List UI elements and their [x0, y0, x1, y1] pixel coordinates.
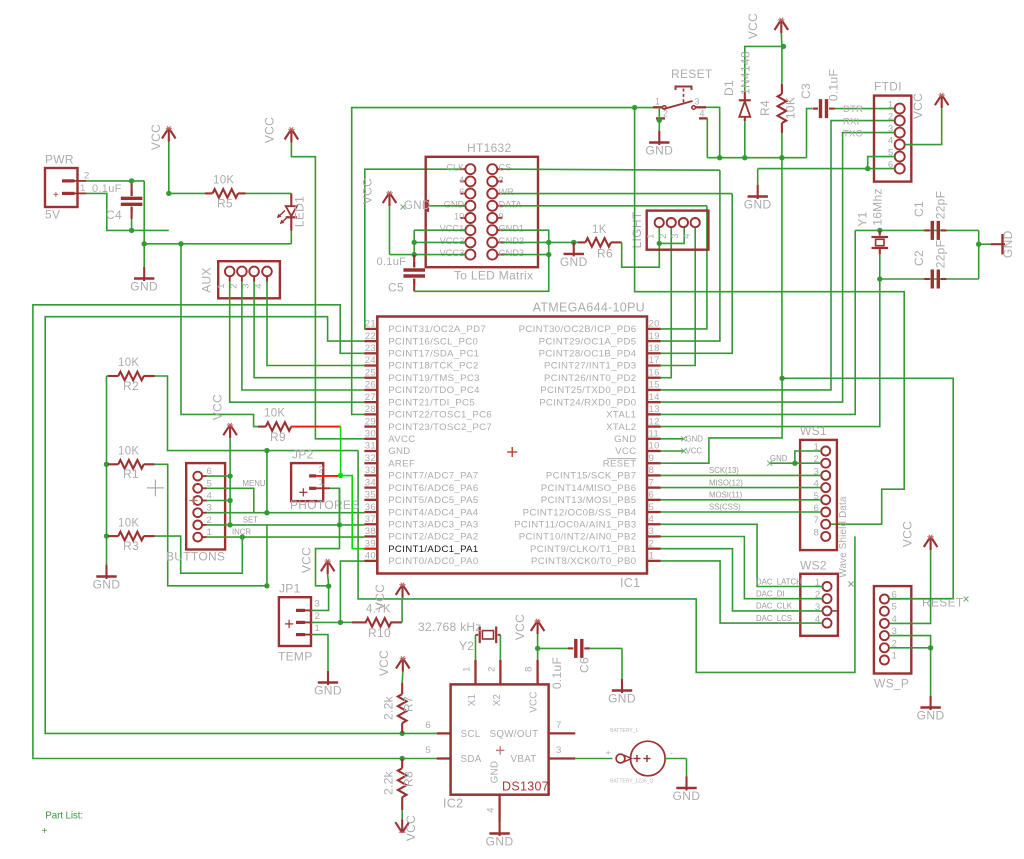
wire AUX3 to IC pin25 [254, 282, 364, 378]
svg-text:DAC_DI: DAC_DI [756, 590, 785, 599]
svg-text:PCINT7/ADC7_PA7: PCINT7/ADC7_PA7 [388, 471, 478, 482]
svg-text:GND: GND [673, 789, 701, 803]
connector JP1 (temp sensor) [279, 597, 311, 646]
ground GND (battery) [685, 777, 687, 791]
wire MISO(12) IC pin7 to WS1 pin4 [661, 487, 821, 489]
pin 22 (PCINT16/SCL_PC0) [364, 340, 377, 342]
pin 11 (GND) [647, 438, 661, 440]
LED LED1 [290, 193, 292, 206]
supply VCC arrow (main rail) [162, 128, 169, 139]
svg-text:VCC: VCC [263, 117, 277, 143]
svg-text:VCC: VCC [377, 650, 391, 676]
svg-text:R9: R9 [270, 430, 286, 444]
svg-text:2: 2 [84, 171, 90, 182]
svg-text:Part List:: Part List: [45, 811, 83, 822]
svg-text:R7: R7 [402, 696, 416, 712]
svg-text:0.1uF: 0.1uF [377, 256, 407, 268]
svg-text:VCC: VCC [901, 521, 915, 547]
wire reset rail to C3 [807, 109, 813, 158]
svg-text:2: 2 [888, 112, 894, 123]
svg-text:36: 36 [365, 502, 376, 513]
pin 2 (PCINT9/CLKO/T1_PB1) [647, 548, 661, 550]
svg-text:6: 6 [649, 490, 655, 501]
net label GND (IC pin11) [661, 438, 684, 440]
supply VCC arrow (IC2) [531, 621, 538, 632]
svg-text:PCINT11/OC0A/AIN1_PB3: PCINT11/OC0A/AIN1_PB3 [514, 519, 636, 530]
svg-text:C3: C3 [799, 83, 813, 99]
ground GND (FTDI) [757, 169, 759, 185]
svg-text:VCC: VCC [746, 13, 760, 39]
svg-text:PCINT22/TOSC1_PC6: PCINT22/TOSC1_PC6 [388, 410, 492, 421]
svg-text:JP1: JP1 [279, 582, 301, 596]
svg-text:18: 18 [649, 343, 660, 354]
svg-text:HT1632: HT1632 [467, 141, 512, 155]
svg-text:1: 1 [462, 666, 473, 672]
ground GND (reset switch) [658, 131, 660, 145]
svg-text:8: 8 [814, 527, 820, 538]
svg-text:C5: C5 [388, 281, 404, 295]
wire IC pin21 to HT1632 CLK [364, 169, 465, 329]
pin 37 (PCINT3/ADC3_PA3) [364, 523, 377, 525]
pin 3 (PCINT10/INT2/AIN0_PB2) [647, 535, 661, 537]
svg-text:R1: R1 [123, 467, 139, 481]
svg-text:GND: GND [770, 454, 788, 463]
svg-text:22pF: 22pF [934, 240, 948, 269]
HT1632 pin row 4/3 [465, 176, 475, 186]
svg-text:VCC: VCC [361, 178, 375, 204]
pin 31 (GND) [364, 450, 377, 452]
pin 32 (AREF) [364, 462, 377, 464]
svg-text:X2: X2 [492, 694, 503, 707]
wire VCC1/2/3 tie [414, 229, 465, 231]
supply VCC arrow (R4/reset) [775, 20, 782, 31]
svg-text:PCINT16/SCL_PC0: PCINT16/SCL_PC0 [388, 336, 478, 347]
HT1632 pin row 10/9 [465, 213, 475, 223]
svg-text:AREF: AREF [388, 458, 415, 469]
resistor R7 2.2k [396, 658, 403, 669]
pin X1 (1) [474, 660, 476, 685]
wire IC pin9 RESET zigzag to R4 node [661, 378, 782, 463]
svg-text:10K: 10K [118, 446, 139, 458]
svg-text:0.1uF: 0.1uF [827, 69, 841, 101]
pin VBAT (3) [549, 757, 576, 759]
wire R3 under-loop to INCR [155, 536, 243, 573]
svg-text:4: 4 [486, 807, 497, 813]
svg-text:GND: GND [608, 692, 636, 706]
svg-text:RXI: RXI [843, 117, 859, 128]
wire SCL net (IC pin22 to IC2 SCL) [45, 317, 402, 734]
svg-text:AUX: AUX [200, 267, 214, 293]
capacitor C1 22pF [924, 229, 930, 231]
svg-text:9: 9 [649, 453, 655, 464]
wire IC pin13 XTAL1 to crystal [661, 230, 855, 414]
svg-text:34: 34 [365, 477, 377, 488]
ground tick GND (HT1632 left) [428, 205, 465, 207]
svg-text:DAC_LCS: DAC_LCS [756, 614, 792, 623]
wire AUX1 to IC pin27 [230, 282, 365, 403]
svg-text:10K: 10K [118, 518, 139, 530]
svg-text:30: 30 [365, 428, 376, 439]
svg-text:1N4148: 1N4148 [739, 51, 753, 95]
svg-text:7: 7 [814, 515, 820, 526]
pin 17 (PCINT27/INT1_PD3) [647, 364, 661, 366]
pin 23 (PCINT17/SDA_PC1) [364, 352, 377, 354]
wire SS(CSS) IC pin5 to WS1 pin6 [661, 511, 821, 513]
svg-text:JP2: JP2 [292, 448, 314, 462]
wire R10 to VCC corner [401, 599, 403, 623]
svg-text:PCINT2/ADC2_PA2: PCINT2/ADC2_PA2 [388, 532, 478, 543]
svg-text:BUTTONS: BUTTONS [166, 550, 225, 564]
ground GND (C6) [621, 679, 623, 693]
wire IC pin15 TXD to FTDI RXI [661, 121, 895, 390]
svg-text:DTR: DTR [843, 104, 863, 115]
svg-text:22pF: 22pF [934, 191, 948, 220]
svg-text:32.768 kHz: 32.768 kHz [418, 620, 482, 634]
svg-text:3: 3 [888, 124, 894, 135]
wire AUX4 to IC pin24 [267, 282, 364, 366]
svg-text:PCINT9/CLKO/T1_PB1: PCINT9/CLKO/T1_PB1 [530, 544, 637, 555]
svg-text:1: 1 [80, 183, 86, 194]
wire MOSI(11) IC pin6 to WS1 pin5 [661, 499, 821, 501]
svg-text:PCINT31/OC2A_PD7: PCINT31/OC2A_PD7 [388, 324, 486, 335]
svg-text:VCC: VCC [513, 614, 527, 640]
svg-text:38: 38 [365, 526, 376, 537]
resistor R5 10K [169, 192, 205, 194]
svg-text:To LED Matrix: To LED Matrix [454, 269, 533, 283]
svg-text:37: 37 [365, 514, 376, 525]
svg-text:GND: GND [93, 578, 121, 592]
svg-text:2: 2 [663, 109, 668, 119]
svg-text:GND: GND [645, 144, 673, 158]
svg-text:16: 16 [649, 367, 660, 378]
svg-text:R3: R3 [123, 539, 139, 553]
supply VCC arrow (JP1) [321, 561, 328, 572]
supply VCC arrow (WS_P) [924, 537, 931, 548]
wire JP1 pin2 to R10 [305, 621, 311, 623]
svg-text:SET: SET [243, 516, 258, 525]
wire crystal bottom rail [880, 278, 979, 280]
svg-text:C4: C4 [106, 208, 122, 222]
svg-text:GND2: GND2 [499, 236, 525, 246]
wire IC pin17 to LIGHT pin4 [661, 227, 695, 365]
svg-text:R8: R8 [402, 771, 416, 787]
net label VCC (IC pin10) [661, 450, 684, 452]
pin 10 (VCC) [647, 450, 661, 452]
svg-text:PCINT27/INT1_PD3: PCINT27/INT1_PD3 [544, 361, 637, 372]
pin SDA (5) [437, 757, 451, 759]
svg-text:GND1: GND1 [499, 224, 525, 234]
connector LIGHT header [647, 211, 709, 250]
svg-text:R2: R2 [123, 379, 139, 393]
wire IC pin19 to HT1632 CS [661, 170, 720, 341]
pin SCL (6) [437, 732, 451, 734]
wire D1 to VCC node [745, 46, 784, 92]
svg-text:MOSI(11): MOSI(11) [709, 491, 743, 500]
svg-text:1: 1 [649, 551, 655, 562]
HT1632 pin row VCC2/GND2 [465, 237, 475, 247]
svg-text:PCINT23/TOSC2_PC7: PCINT23/TOSC2_PC7 [388, 422, 492, 433]
svg-text:22: 22 [365, 331, 376, 342]
svg-text:2: 2 [319, 464, 325, 475]
svg-text:PCINT24/RXD0_PD0: PCINT24/RXD0_PD0 [539, 397, 636, 408]
wire C6 to GND [621, 648, 623, 679]
svg-text:PCINT1/ADC1_PA1: PCINT1/ADC1_PA1 [388, 544, 478, 555]
svg-text:25: 25 [365, 367, 376, 378]
svg-text:PCINT19/TMS_PC3: PCINT19/TMS_PC3 [388, 373, 480, 384]
svg-text:CLK: CLK [446, 163, 465, 173]
svg-text:PCINT4/ADC4_PA4: PCINT4/ADC4_PA4 [388, 507, 479, 518]
pin 4 (PCINT11/OC0A/AIN1_PB3) [647, 523, 661, 525]
battery BATTERY_1 [575, 758, 612, 760]
svg-text:4: 4 [700, 109, 705, 119]
wire WS_P pin3/2 to GND [889, 636, 931, 648]
wire PWR pin1 to VCC rail [86, 193, 169, 230]
svg-text:PHOTORES: PHOTORES [290, 498, 360, 512]
pin 1 (PCINT8/XCK0/T0_PB0) [647, 560, 661, 562]
svg-text:4: 4 [254, 283, 265, 289]
svg-text:C1: C1 [912, 201, 926, 217]
capacitor C6 0.1uF [538, 647, 568, 649]
svg-text:10K: 10K [118, 357, 139, 369]
connector BUTTONS header [186, 463, 225, 549]
wire IC2 VCC pin to arrow and C6 [537, 648, 539, 659]
wire IC pin28 to reset-switch net [352, 108, 655, 415]
svg-text:VCC1: VCC1 [440, 224, 465, 234]
svg-text:GND: GND [486, 835, 514, 849]
svg-text:15: 15 [649, 380, 660, 391]
svg-text:XTAL2: XTAL2 [606, 422, 636, 433]
svg-text:+: + [42, 826, 48, 837]
IC IC2 DS1307 body [451, 684, 549, 794]
svg-text:0.1uF: 0.1uF [550, 657, 564, 689]
wire VCC to AVCC (IC pin30) [291, 143, 364, 439]
svg-text:VCC: VCC [911, 93, 925, 119]
wire R1 to SET drop [155, 464, 267, 586]
svg-text:PCINT0/ADC0_PA0: PCINT0/ADC0_PA0 [388, 556, 478, 567]
wire switch pin1/2 to GND [658, 107, 660, 131]
svg-text:Y1: Y1 [856, 211, 870, 226]
diode D1 1N4148 [744, 118, 746, 158]
svg-text:GND: GND [388, 446, 410, 457]
pin 25 (PCINT19/TMS_PC3) [364, 377, 377, 379]
wire WS1 pin1/2 to GND label [795, 451, 821, 463]
HT1632 pin row CLK/CS [465, 164, 475, 174]
wire SET drop to R1 line [266, 525, 268, 586]
svg-text:PCINT13/MOSI_PB5: PCINT13/MOSI_PB5 [541, 495, 637, 506]
svg-text:10: 10 [454, 212, 464, 222]
wire HT1632 CLK to left [464, 168, 466, 170]
svg-text:X1: X1 [467, 694, 478, 707]
svg-text:-: - [670, 748, 673, 758]
wire SET net row (buttons pin2 to IC pin37) [207, 524, 365, 526]
IC U1 ATMEGA644-10PU body [377, 317, 647, 574]
svg-text:4: 4 [459, 175, 464, 185]
wire switch pin3 to reset rail [706, 107, 720, 157]
ground GND (IC2) [499, 822, 501, 836]
svg-text:RESET: RESET [671, 67, 713, 81]
wire GND2 row to R6 [549, 241, 578, 243]
svg-text:+: + [53, 190, 59, 201]
svg-text:5: 5 [425, 745, 431, 756]
wire HT1632 WR to IC pin18 riser [503, 193, 733, 195]
svg-text:2: 2 [315, 611, 321, 622]
svg-text:VCC3: VCC3 [440, 248, 465, 258]
capacitor C3 0.1uF [813, 108, 819, 110]
svg-text:2: 2 [649, 538, 655, 549]
svg-text:GND: GND [404, 200, 430, 212]
wire GND rail to LED1 cathode [144, 243, 291, 245]
svg-text:2.2k: 2.2k [382, 770, 396, 795]
pin 35 (PCINT5/ADC5_PA5) [364, 499, 377, 501]
svg-text:GND: GND [614, 434, 636, 445]
svg-text:+: + [606, 748, 612, 758]
svg-text:GND: GND [444, 199, 465, 209]
resistor R9 10K [258, 426, 266, 428]
svg-text:VCC: VCC [300, 547, 314, 573]
svg-text:3: 3 [670, 233, 681, 239]
wire buttons pin5 MENU elbow [207, 488, 254, 512]
wire JP1 pin2 riser to IC pin40 [340, 561, 364, 622]
svg-text:20: 20 [649, 319, 660, 330]
net label GND (WS1) [767, 461, 772, 466]
svg-text:PWR: PWR [45, 153, 74, 167]
wire GND rail for R1/R2/R3 [106, 376, 108, 565]
ground GND (crystal) [979, 243, 991, 245]
wire JP1 pin1 to GND [305, 634, 311, 636]
svg-text:PCINT5/ADC5_PA5: PCINT5/ADC5_PA5 [388, 495, 478, 506]
wire HT1632 CS to IC pin19 riser [503, 169, 720, 170]
wire JP1 pin3 to VCC [305, 609, 311, 611]
svg-text:32: 32 [365, 453, 376, 464]
wire reset rail down to RESET net [781, 158, 783, 379]
svg-text:4: 4 [888, 136, 894, 147]
wire IC pin12 XTAL2 to crystal [661, 279, 880, 427]
svg-text:LED1: LED1 [293, 196, 307, 227]
wire IC pin20 to HT1632 DATA [661, 206, 707, 329]
svg-text:1: 1 [892, 651, 898, 662]
svg-text:DATA: DATA [499, 199, 523, 209]
wire C1/C2 right tie [978, 230, 980, 279]
svg-text:BATTERY_1Z36_Q: BATTERY_1Z36_Q [610, 779, 654, 785]
svg-text:WS2: WS2 [800, 559, 827, 573]
svg-text:6: 6 [425, 720, 431, 731]
pin 7 (PCINT14/MISO_PB6) [647, 486, 661, 488]
svg-text:PCINT17/SDA_PC1: PCINT17/SDA_PC1 [388, 349, 479, 360]
svg-text:39: 39 [365, 538, 376, 549]
svg-text:PCINT26/INT0_PD2: PCINT26/INT0_PD2 [544, 373, 637, 384]
svg-text:10K: 10K [784, 97, 798, 119]
svg-text:3: 3 [695, 97, 700, 107]
svg-text:8: 8 [649, 465, 655, 476]
wire crystal top rail [855, 229, 979, 231]
pin 21 (PCINT31/OC2A_PD7) [364, 328, 377, 330]
pin 15 (PCINT25/TXD0_PD1) [647, 389, 661, 391]
wire WS_P pin6 RESET [889, 598, 953, 600]
wire MENU net row (buttons pin3 to IC pin36) [207, 512, 365, 514]
svg-text:26: 26 [365, 380, 376, 391]
pin 24 (PCINT18/TCK_PC2) [364, 364, 377, 366]
pin 13 (XTAL1) [647, 413, 661, 415]
capacitor C5 0.1uF [413, 255, 415, 267]
connector WS2 header [800, 574, 838, 636]
svg-text:VCC2: VCC2 [440, 236, 465, 246]
HT1632 pin row 6/WR [465, 189, 475, 199]
svg-text:0.1uF: 0.1uF [92, 183, 122, 195]
svg-text:23: 23 [365, 343, 376, 354]
svg-text:1: 1 [216, 283, 227, 289]
svg-text:VBAT: VBAT [511, 754, 537, 765]
svg-text:10K: 10K [213, 175, 234, 187]
svg-text:RESET: RESET [603, 458, 637, 469]
svg-text:16Mhz: 16Mhz [871, 188, 885, 226]
svg-text:17: 17 [649, 355, 660, 366]
svg-text:Y2: Y2 [459, 639, 474, 653]
supply VCC arrow (R10) [396, 584, 403, 595]
svg-text:INCR: INCR [232, 528, 251, 537]
svg-text:5: 5 [892, 602, 898, 613]
wire IC pin14 RXD to FTDI TXO [661, 133, 895, 403]
wire DAC_CLK IC pin2 to WS2 pin3 [661, 549, 823, 611]
svg-text:GND: GND [1001, 230, 1015, 258]
svg-text:AVCC: AVCC [388, 434, 415, 445]
svg-text:SQW/OUT: SQW/OUT [490, 729, 539, 740]
svg-text:PCINT25/TXD0_PD1: PCINT25/TXD0_PD1 [540, 385, 636, 396]
svg-text:LIGHT: LIGHT [630, 211, 644, 248]
resistor R1 10K [107, 463, 109, 465]
svg-text:29: 29 [365, 416, 376, 427]
ground GND (WS_P) [930, 696, 932, 710]
wire R2 to MENU/VCC riser [155, 376, 358, 451]
svg-text:ATMEGA644-10PU: ATMEGA644-10PU [533, 301, 645, 315]
svg-text:R4: R4 [758, 100, 772, 116]
svg-text:40: 40 [365, 551, 376, 562]
pin 12 (XTAL2) [647, 425, 661, 427]
pin 20 (PCINT30/OC2B/ICP_PD6) [647, 328, 661, 330]
svg-text:SCL: SCL [461, 729, 481, 740]
wire DAC_LCS IC pin1 to WS2 pin4 [661, 561, 823, 623]
svg-text:13: 13 [649, 404, 660, 415]
wire GND rail drop to R9 feed [181, 244, 258, 427]
svg-text:PCINT29/OC1A_PD5: PCINT29/OC1A_PD5 [539, 336, 637, 347]
svg-text:1: 1 [315, 623, 321, 634]
origin cross near R1 [147, 487, 164, 489]
svg-text:VCC: VCC [404, 815, 418, 841]
pin 18 (PCINT28/OC1B_PD4) [647, 352, 661, 354]
svg-text:14: 14 [649, 392, 661, 403]
wire IC pin16 to LIGHT pin2 [661, 227, 671, 378]
resistor R2 10K [107, 375, 109, 377]
svg-text:DAC_LATCH: DAC_LATCH [756, 577, 802, 586]
pin 26 (PCINT20/TDO_PC4) [364, 389, 377, 391]
wire JP2 pin1 to VCC jog [316, 487, 330, 489]
svg-text:21: 21 [365, 319, 376, 330]
svg-text:C2: C2 [912, 250, 926, 266]
svg-text:3: 3 [315, 599, 321, 610]
wire VCC long run to WS1 pin8 [402, 536, 855, 672]
connector AUX header [218, 261, 280, 298]
ground GND (power input) [143, 244, 145, 267]
wire WS_P pin4 to VCC [889, 550, 931, 623]
pin 6 (PCINT13/MOSI_PB5) [647, 499, 661, 501]
svg-text:VCC: VCC [615, 446, 636, 457]
svg-text:3: 3 [649, 526, 655, 537]
ground GND (near R6) [573, 242, 575, 256]
svg-text:MISO(12): MISO(12) [709, 478, 743, 487]
pin 40 (PCINT0/ADC0_PA0) [364, 560, 377, 562]
svg-text:PCINT6/ADC6_PA6: PCINT6/ADC6_PA6 [388, 483, 478, 494]
wire PWR pin2 to C4 top / GND drop [86, 180, 144, 182]
capacitor C2 22pF [924, 278, 930, 280]
